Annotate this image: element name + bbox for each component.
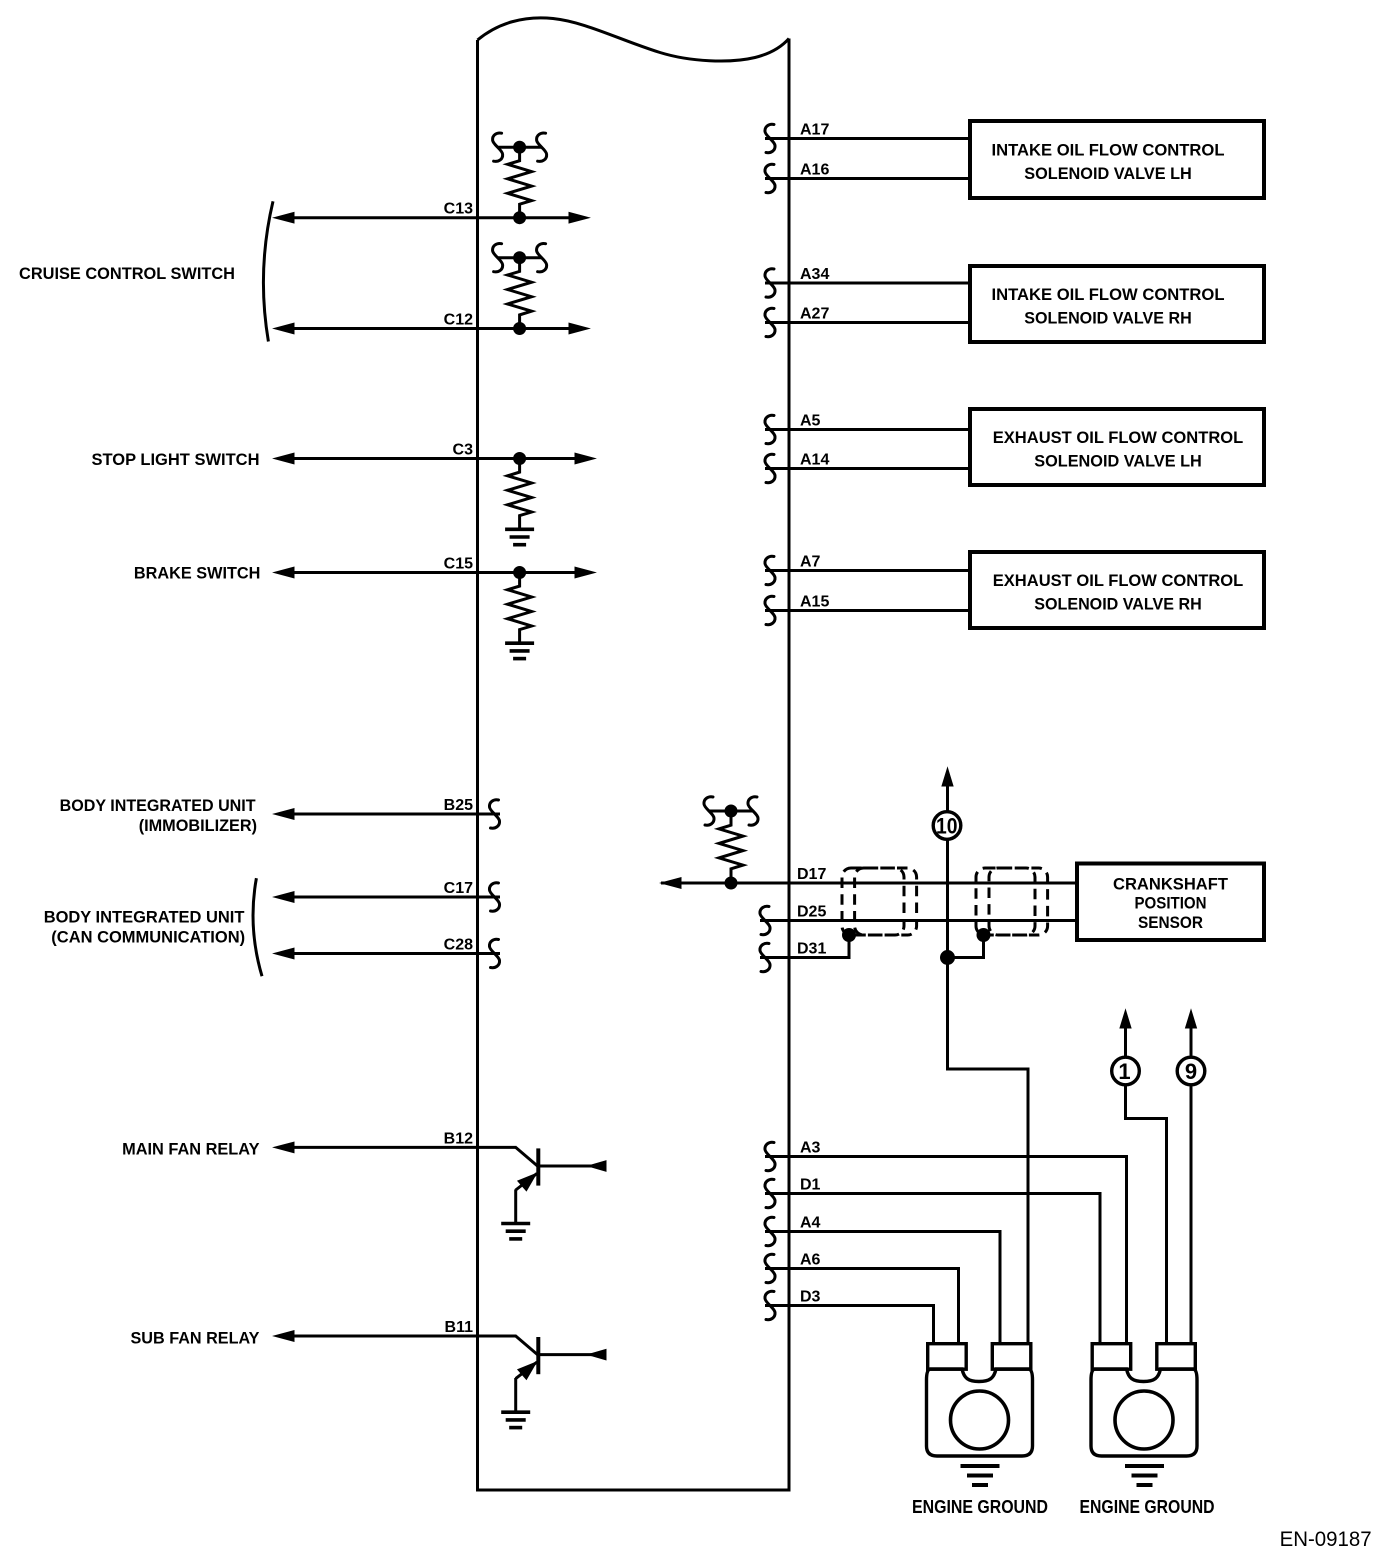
- ground (Q2 emitter): [501, 1412, 530, 1427]
- svg-text:EXHAUST OIL FLOW CONTROL: EXHAUST OIL FLOW CONTROL: [993, 571, 1244, 590]
- arrowhead B11 left: [274, 1331, 294, 1342]
- wire node 1 to engine ground: [1126, 1084, 1167, 1345]
- ground (R4): [505, 643, 534, 658]
- node C15 junction dot: [514, 567, 526, 579]
- pin label B25: [444, 797, 473, 814]
- label SUB FAN RELAY: [131, 1328, 261, 1347]
- wire D25 (crank signal return): [760, 919, 1077, 922]
- svg-text:D25: D25: [797, 904, 826, 921]
- arrowhead C17 left: [274, 892, 294, 903]
- figure number EN-09187: [1280, 1528, 1372, 1551]
- svg-text:C17: C17: [444, 880, 473, 897]
- wire node 9 to engine ground: [1190, 1084, 1193, 1345]
- brace for cruise control switch: [263, 201, 273, 341]
- connector break at pin B25: [489, 800, 499, 828]
- wire pin A14 to solenoid valve: [765, 467, 968, 470]
- ground (Q1 emitter): [501, 1224, 530, 1239]
- connector break at pin A15: [765, 596, 775, 624]
- svg-text:SENSOR: SENSOR: [1138, 913, 1203, 932]
- internal supply bar for R1: [498, 146, 542, 149]
- svg-text:BRAKE SWITCH: BRAKE SWITCH: [134, 563, 261, 582]
- connector break at pin D1: [765, 1179, 775, 1207]
- wire pin A6 to engine ground: [765, 1269, 959, 1346]
- svg-text:CRANKSHAFT: CRANKSHAFT: [1113, 874, 1229, 893]
- connector break at pin A3: [765, 1142, 775, 1170]
- wire pin A5 to solenoid valve: [765, 428, 968, 431]
- svg-text:B11: B11: [445, 1319, 474, 1336]
- resistor R4 (C15 pull-down): [508, 573, 532, 644]
- node D17 junction dot: [725, 877, 737, 889]
- connector break right of R5 bar: [748, 797, 758, 825]
- svg-text:D3: D3: [800, 1289, 821, 1306]
- svg-text:9: 9: [1185, 1059, 1197, 1084]
- shielded twisted pair symbol (left): [842, 868, 917, 935]
- connector break at pin A16: [765, 164, 775, 192]
- label BODY INTEGRATED UNIT (CAN COMMUNICATION): [44, 907, 245, 946]
- pin label D31: [797, 941, 826, 958]
- arrowhead C28 left: [274, 948, 294, 959]
- wire pin D1 to engine ground: [765, 1194, 1100, 1346]
- resistor R2 (C12 pull-up): [508, 258, 532, 329]
- label ENGINE GROUND (left): [912, 1497, 1048, 1517]
- wire C12 row (cruise control switch): [280, 327, 572, 330]
- connector break at pin D25: [760, 906, 770, 934]
- pin label A27: [800, 306, 829, 323]
- svg-text:ENGINE GROUND: ENGINE GROUND: [1080, 1497, 1215, 1517]
- svg-text:A4: A4: [800, 1215, 821, 1232]
- svg-text:EXHAUST OIL FLOW CONTROL: EXHAUST OIL FLOW CONTROL: [993, 428, 1244, 447]
- svg-text:C12: C12: [444, 312, 473, 329]
- connector break at pin C17: [489, 883, 499, 911]
- ECU (engine control module) left edge wire: [476, 40, 479, 1490]
- svg-text:BODY INTEGRATED UNIT: BODY INTEGRATED UNIT: [60, 796, 257, 815]
- pin label A6: [800, 1252, 821, 1269]
- pin label C15: [444, 556, 473, 573]
- svg-text:A17: A17: [800, 122, 829, 139]
- svg-text:A34: A34: [800, 266, 829, 283]
- connector break at pin A34: [765, 269, 775, 297]
- arrowhead C15 right: [575, 567, 595, 578]
- wire pin A4 to engine ground: [765, 1232, 1000, 1346]
- svg-text:BODY INTEGRATED UNIT: BODY INTEGRATED UNIT: [44, 907, 245, 926]
- arrowhead B12 left: [274, 1142, 294, 1153]
- wire node 10 upper stub: [946, 784, 949, 812]
- connector break at pin A6: [765, 1254, 775, 1282]
- connector break at pin A14: [765, 454, 775, 482]
- svg-text:SOLENOID VALVE LH: SOLENOID VALVE LH: [1024, 164, 1192, 183]
- arrowhead node 9 up: [1186, 1010, 1197, 1028]
- svg-text:A5: A5: [800, 413, 821, 430]
- svg-text:INTAKE OIL FLOW CONTROL: INTAKE OIL FLOW CONTROL: [992, 140, 1225, 159]
- engine ground terminal 2 (connector lug): [1091, 1344, 1197, 1456]
- wire B11 (sub fan relay): [280, 1335, 517, 1338]
- component box: INTAKE OIL FLOW CONTROL SOLENOID VALVE LH: [970, 121, 1264, 198]
- node 9 circled number: [1177, 1057, 1205, 1085]
- pin label B12: [444, 1130, 473, 1147]
- svg-text:(IMMOBILIZER): (IMMOBILIZER): [139, 816, 257, 835]
- arrowhead node 1 up: [1120, 1010, 1131, 1028]
- svg-text:A27: A27: [800, 306, 829, 323]
- wire C28 (CAN communication): [280, 952, 500, 955]
- pin label C12: [444, 312, 473, 329]
- wire C3 row (stop light switch): [280, 457, 577, 460]
- svg-text:D31: D31: [797, 941, 826, 958]
- node shield 2 dot: [977, 929, 990, 942]
- svg-text:A6: A6: [800, 1252, 821, 1269]
- node R5 top dot: [725, 805, 737, 817]
- resistor R3 (C3 pull-down): [508, 459, 532, 530]
- label BODY INTEGRATED UNIT (IMMOBILIZER): [60, 796, 258, 835]
- wire B12 (main fan relay): [280, 1146, 517, 1149]
- wire ground trunk from node 10: [948, 838, 1029, 1345]
- node C13 junction dot: [514, 212, 526, 224]
- arrowhead C13 left: [274, 212, 294, 223]
- label STOP LIGHT SWITCH: [92, 450, 260, 469]
- resistor R5 (D17 pull-up): [719, 811, 743, 883]
- connector break at pin C28: [489, 939, 499, 967]
- pin label D1: [800, 1177, 821, 1194]
- node R1 top dot: [514, 141, 526, 153]
- wire pin A27 to solenoid valve: [765, 321, 968, 324]
- svg-text:C28: C28: [444, 937, 473, 954]
- wire C15 row (brake switch): [280, 571, 577, 574]
- wire pin D3 to engine ground: [765, 1306, 934, 1346]
- node shield 1 dot: [843, 929, 856, 942]
- node junction dot on ground trunk: [941, 951, 955, 965]
- svg-text:(CAN COMMUNICATION): (CAN COMMUNICATION): [51, 928, 245, 947]
- label MAIN FAN RELAY: [122, 1140, 260, 1159]
- svg-text:B12: B12: [444, 1130, 473, 1147]
- shielded twisted pair symbol (right): [976, 868, 1048, 935]
- component box: INTAKE OIL FLOW CONTROL SOLENOID VALVE RH: [970, 266, 1264, 342]
- internal supply bar for R2: [498, 256, 542, 259]
- svg-text:POSITION: POSITION: [1135, 894, 1207, 913]
- connector break at pin A7: [765, 556, 775, 584]
- transistor Q1 (main fan relay driver): [516, 1147, 606, 1224]
- connector break right of R2 bar: [537, 244, 547, 272]
- ECU bottom edge wire: [476, 1489, 791, 1492]
- svg-text:1: 1: [1118, 1059, 1130, 1084]
- svg-text:A16: A16: [800, 162, 829, 179]
- wire pin A34 to solenoid valve: [765, 282, 968, 285]
- connector break at pin D3: [765, 1291, 775, 1319]
- resistor R1 (C13 pull-up): [508, 147, 532, 218]
- ground (engine ground 2): [1125, 1466, 1164, 1485]
- component box: EXHAUST OIL FLOW CONTROL SOLENOID VALVE RH: [970, 552, 1264, 628]
- wire pin A7 to solenoid valve: [765, 569, 968, 572]
- wire D17 (crank signal): [661, 882, 1077, 885]
- pin label A4: [800, 1215, 821, 1232]
- wire pin A15 to solenoid valve: [765, 609, 968, 612]
- svg-text:C3: C3: [453, 442, 474, 459]
- node C12 junction dot: [514, 323, 526, 335]
- wire node 9 upper stub: [1190, 1026, 1193, 1058]
- connector break at pin A27: [765, 308, 775, 336]
- svg-text:C15: C15: [444, 556, 473, 573]
- svg-text:MAIN FAN RELAY: MAIN FAN RELAY: [122, 1140, 260, 1159]
- pin label C3: [453, 442, 474, 459]
- pin label C17: [444, 880, 473, 897]
- pin label A5: [800, 413, 821, 430]
- svg-text:A15: A15: [800, 594, 829, 611]
- brace for CAN communication pins: [253, 878, 262, 976]
- svg-text:INTAKE OIL FLOW CONTROL: INTAKE OIL FLOW CONTROL: [992, 285, 1225, 304]
- engine ground terminal 1 (connector lug): [927, 1344, 1033, 1456]
- arrowhead C3 left: [274, 453, 294, 464]
- ground (R3): [505, 529, 534, 544]
- pin label C13: [444, 201, 473, 218]
- transistor Q2 (sub fan relay driver): [516, 1336, 606, 1413]
- svg-text:A14: A14: [800, 452, 829, 469]
- node R2 top dot: [514, 252, 526, 264]
- connector break left of R1 bar: [493, 133, 503, 161]
- pin label A15: [800, 594, 829, 611]
- connector break at pin A4: [765, 1217, 775, 1245]
- pin label D25: [797, 904, 826, 921]
- internal supply bar for R5: [709, 810, 753, 813]
- arrowhead C13 right: [569, 212, 589, 223]
- pin label D3: [800, 1289, 821, 1306]
- wire pin A16 to solenoid valve: [765, 177, 968, 180]
- connector break right of R1 bar: [537, 133, 547, 161]
- wire pin A3 to engine ground: [765, 1157, 1127, 1346]
- svg-text:EN-09187: EN-09187: [1280, 1528, 1372, 1551]
- ECU right edge wire: [788, 39, 791, 1491]
- connector break at pin A5: [765, 415, 775, 443]
- wire C13 row (cruise control switch): [280, 216, 572, 219]
- node C3 junction dot: [514, 453, 526, 465]
- connector break at pin A17: [765, 124, 775, 152]
- pin label A17: [800, 122, 829, 139]
- node 10 circled number: [933, 812, 961, 840]
- ground (engine ground 1): [961, 1466, 1000, 1485]
- wire node 1 upper stub: [1124, 1026, 1127, 1058]
- svg-text:D17: D17: [797, 866, 826, 883]
- component box: CRANKSHAFT POSITION SENSOR: [1077, 864, 1264, 941]
- svg-text:SUB FAN RELAY: SUB FAN RELAY: [131, 1328, 261, 1347]
- pin label A3: [800, 1140, 821, 1157]
- arrowhead C15 left: [274, 567, 294, 578]
- label BRAKE SWITCH: [134, 563, 261, 582]
- svg-text:C13: C13: [444, 201, 473, 218]
- svg-text:B25: B25: [444, 797, 473, 814]
- wire B25 (immobilizer): [280, 813, 500, 816]
- wire C17 (CAN communication): [280, 896, 500, 899]
- node 1 circled number: [1112, 1057, 1140, 1085]
- svg-text:A7: A7: [800, 554, 821, 571]
- pin label B11: [445, 1319, 474, 1336]
- svg-text:ENGINE GROUND: ENGINE GROUND: [912, 1497, 1048, 1517]
- pin label A16: [800, 162, 829, 179]
- pin label A34: [800, 266, 829, 283]
- wire D31 (shield drain): [760, 935, 849, 959]
- pin label A7: [800, 554, 821, 571]
- pin label A14: [800, 452, 829, 469]
- arrowhead C3 right: [575, 453, 595, 464]
- label ENGINE GROUND (right): [1080, 1497, 1215, 1517]
- ECU top break (wavy continuation line): [478, 18, 790, 61]
- arrowhead C12 left: [274, 323, 294, 334]
- svg-text:SOLENOID VALVE RH: SOLENOID VALVE RH: [1024, 308, 1192, 327]
- connector break left of R2 bar: [493, 244, 503, 272]
- component box: EXHAUST OIL FLOW CONTROL SOLENOID VALVE LH: [970, 409, 1264, 485]
- label CRUISE CONTROL SWITCH: [19, 264, 235, 283]
- connector break at pin D31: [760, 943, 770, 971]
- svg-text:SOLENOID VALVE LH: SOLENOID VALVE LH: [1034, 451, 1202, 470]
- svg-text:CRUISE CONTROL SWITCH: CRUISE CONTROL SWITCH: [19, 264, 235, 283]
- arrowhead D17 left: [661, 878, 681, 889]
- svg-text:STOP LIGHT SWITCH: STOP LIGHT SWITCH: [92, 450, 260, 469]
- wire shield 2 to ground line: [948, 935, 986, 958]
- svg-text:D1: D1: [800, 1177, 821, 1194]
- arrowhead C12 right: [569, 323, 589, 334]
- wire pin A17 to solenoid valve: [765, 137, 968, 140]
- pin label C28: [444, 937, 473, 954]
- arrowhead node 10 up: [942, 768, 953, 786]
- svg-text:10: 10: [936, 814, 958, 839]
- arrowhead B25 left: [274, 809, 294, 820]
- svg-text:SOLENOID VALVE RH: SOLENOID VALVE RH: [1034, 594, 1202, 613]
- svg-text:A3: A3: [800, 1140, 821, 1157]
- connector break left of R5 bar: [704, 797, 714, 825]
- pin label D17: [797, 866, 826, 883]
